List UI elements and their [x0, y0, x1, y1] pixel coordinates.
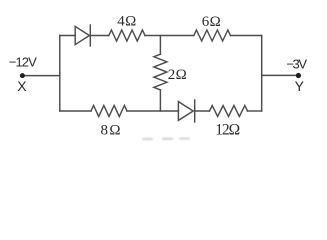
wire terminal Y lead: [262, 74, 299, 76]
wire node A to 2ohm: [159, 36, 161, 55]
resistor R2 6ohm: [194, 30, 231, 41]
wire 2ohm to bottom rail node B: [159, 90, 161, 111]
wire D2 cathode to 12ohm: [195, 110, 210, 112]
svg-text:Y: Y: [295, 78, 305, 94]
svg-text:X: X: [17, 78, 27, 94]
wire 8ohm to diode D2 through node B: [127, 110, 178, 112]
resistor R1 4ohm: [109, 30, 145, 41]
wire right vertical (node Y rail): [261, 36, 263, 112]
wire 12ohm to bottom right corner: [248, 110, 262, 112]
terminal dot Y: [296, 73, 301, 78]
wire left vertical (node X rail): [59, 36, 61, 112]
artifact smudge 1: [142, 138, 153, 140]
wire terminal X lead: [22, 75, 59, 77]
terminal dot X: [20, 73, 25, 78]
svg-text:12Ω: 12Ω: [215, 122, 240, 139]
wire D1 cathode to R 4ohm: [90, 35, 109, 37]
resistor R5 12ohm: [210, 106, 248, 117]
svg-text:2Ω: 2Ω: [168, 67, 187, 83]
diode D2 (bottom branch, anode left): [178, 100, 194, 122]
artifact smudge 2: [162, 138, 173, 140]
artifact smudge 3: [179, 137, 190, 139]
diode D1 (top branch, anode left): [75, 25, 90, 46]
svg-text:4Ω: 4Ω: [117, 14, 136, 30]
svg-text:−3V: −3V: [286, 56, 307, 71]
svg-text:6Ω: 6Ω: [202, 14, 221, 30]
svg-text:−12V: −12V: [9, 55, 37, 70]
wire 4ohm to 6ohm through node A: [145, 35, 194, 37]
wire bottom rail left segment: [60, 110, 91, 112]
resistor R4 8ohm: [91, 106, 127, 117]
resistor R3 2ohm (vertical): [154, 54, 167, 90]
wire 6ohm to right vertical: [231, 35, 262, 37]
wire top rail left segment: [60, 35, 75, 37]
svg-text:8Ω: 8Ω: [101, 123, 121, 139]
